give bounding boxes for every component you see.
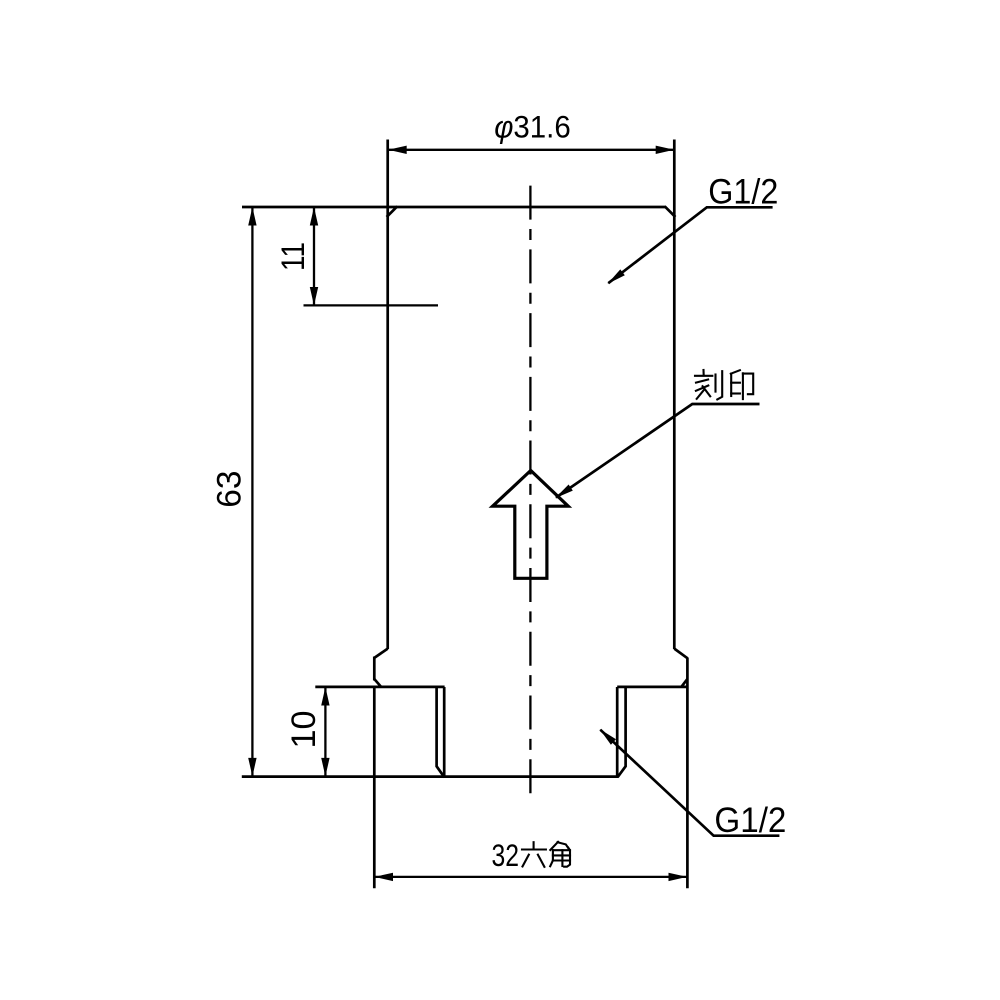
dim line 10 <box>324 687 326 776</box>
svg-text:G1/2: G1/2 <box>708 171 778 211</box>
svg-text:φ31.6: φ31.6 <box>494 108 571 144</box>
svg-text:63: 63 <box>210 471 248 508</box>
arrowhead phi31.6 left <box>388 146 407 154</box>
arrowhead 63 top <box>248 207 256 226</box>
right hex edge and 32-hex extension line <box>686 658 689 889</box>
glyph in (seal) <box>731 370 753 399</box>
right hex bottom chamfer <box>681 679 687 687</box>
body top line with 63-dim extension <box>242 206 666 209</box>
arrowhead 32-hex right <box>669 873 688 881</box>
arrowhead 11 top <box>310 207 318 226</box>
body right edge with dim extension <box>673 140 676 650</box>
dim line 32-hex <box>375 876 687 878</box>
arrowhead G1/2 top <box>608 269 625 284</box>
hollow arrow engraving mark <box>493 471 569 579</box>
arrowhead 10 top <box>321 687 329 706</box>
svg-text:10: 10 <box>285 711 323 749</box>
glyph roku (six) <box>522 842 546 867</box>
label G1/2 bottom leader <box>600 730 779 836</box>
left hex extension line for 32-hex dim <box>373 687 376 888</box>
svg-text:11: 11 <box>275 242 311 271</box>
arrowhead 32-hex left <box>375 873 394 881</box>
top-left chamfer <box>387 206 398 217</box>
glyph kaku (corner) <box>550 842 570 867</box>
label kokuin leader <box>556 404 760 498</box>
arrowhead 11 bottom <box>310 287 318 306</box>
arrowhead kokuin <box>555 485 573 499</box>
left hex bottom chamfer <box>374 679 381 687</box>
right step chamfer <box>674 649 687 659</box>
dim line 11 <box>313 208 315 306</box>
svg-text:G1/2: G1/2 <box>714 800 786 840</box>
lower thread outer right <box>618 687 626 777</box>
right shoulder line <box>617 686 687 689</box>
lower thread inner right <box>616 687 619 777</box>
dim line 63 <box>251 208 253 777</box>
left shoulder line with 10-dim extension <box>315 686 444 689</box>
bottom line with 63/10-dim extension <box>242 775 618 778</box>
arrowhead phi31.6 right <box>656 146 675 154</box>
label G1/2 top leader <box>608 207 772 283</box>
glyph koku (carve) <box>695 370 722 399</box>
arrowhead 10 bottom <box>321 758 329 777</box>
left step chamfer <box>374 649 387 658</box>
dim line phi31.6 <box>389 149 674 151</box>
body left edge with dim extension <box>386 140 389 650</box>
left hex edge <box>373 657 376 681</box>
top-right chamfer <box>665 206 676 217</box>
centerline <box>529 186 531 794</box>
lower thread inner left <box>443 687 446 777</box>
arrowhead 63 bottom <box>248 758 256 777</box>
svg-text:32: 32 <box>492 837 520 873</box>
extension line 11 <box>304 304 439 306</box>
arrowhead G1/2 bottom <box>600 729 616 745</box>
lower thread outer left <box>437 687 445 777</box>
